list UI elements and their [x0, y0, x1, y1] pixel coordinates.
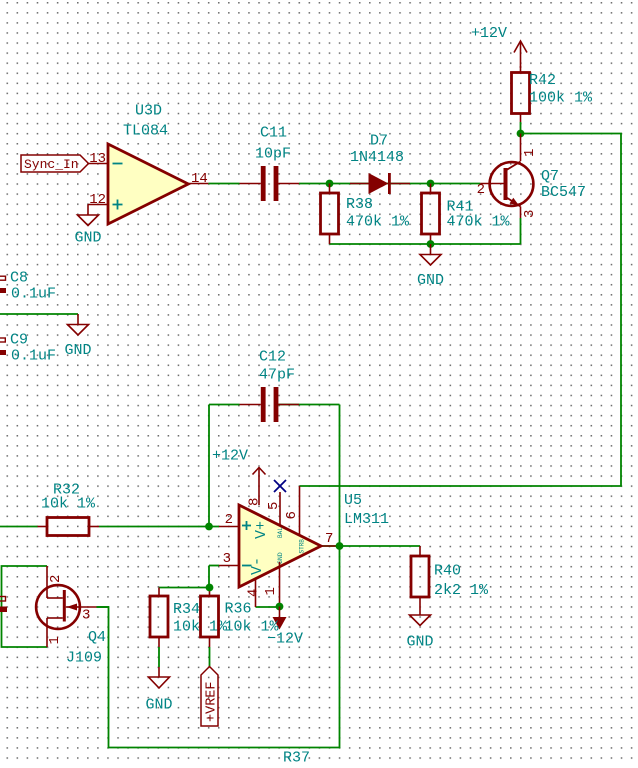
svg-text:3: 3 — [82, 608, 90, 624]
svg-text:14: 14 — [191, 171, 208, 187]
svg-text:1: 1 — [263, 587, 279, 595]
svg-text:4: 4 — [246, 589, 262, 597]
svg-text:10pF: 10pF — [255, 146, 291, 163]
svg-text:GND: GND — [65, 342, 92, 359]
svg-text:5: 5 — [266, 502, 282, 510]
svg-text:STRB: STRB — [299, 539, 306, 554]
svg-text:12: 12 — [89, 192, 106, 208]
svg-text:J109: J109 — [66, 650, 102, 667]
svg-text:U3D: U3D — [135, 103, 162, 120]
svg-text:13: 13 — [89, 151, 106, 167]
svg-text:R40: R40 — [434, 563, 461, 580]
svg-text:GND: GND — [277, 552, 284, 564]
svg-text:Sync_In: Sync_In — [24, 157, 79, 172]
svg-text:10k 1%: 10k 1% — [41, 496, 96, 513]
svg-text:C9: C9 — [10, 332, 28, 349]
svg-text:BAL: BAL — [277, 527, 284, 538]
svg-text:10k 1%: 10k 1% — [225, 619, 280, 636]
svg-text:R36: R36 — [225, 601, 252, 618]
svg-text:TL084: TL084 — [123, 123, 168, 140]
svg-text:V-: V- — [249, 557, 266, 575]
svg-text:1: 1 — [47, 636, 63, 644]
svg-text:470k 1%: 470k 1% — [447, 214, 511, 231]
svg-text:R34: R34 — [173, 601, 200, 618]
svg-text:BC547: BC547 — [541, 184, 586, 201]
svg-text:R42: R42 — [529, 72, 556, 89]
svg-text:V+: V+ — [253, 521, 270, 539]
svg-text:U5: U5 — [344, 492, 362, 509]
svg-text:7: 7 — [325, 531, 333, 547]
svg-text:GND: GND — [146, 697, 173, 714]
svg-text:GND: GND — [417, 272, 444, 289]
svg-text:3: 3 — [223, 551, 231, 567]
svg-text:+12V: +12V — [471, 25, 507, 42]
svg-text:0.1uF: 0.1uF — [11, 348, 56, 365]
svg-text:GND: GND — [407, 634, 434, 651]
svg-text:+12V: +12V — [212, 448, 248, 465]
svg-text:2: 2 — [477, 182, 485, 198]
svg-text:R38: R38 — [346, 196, 373, 213]
svg-text:Q4: Q4 — [88, 629, 106, 646]
svg-text:3: 3 — [522, 210, 538, 218]
svg-text:47pF: 47pF — [259, 367, 295, 384]
svg-text:8: 8 — [247, 498, 263, 506]
svg-text:100k 1%: 100k 1% — [529, 90, 593, 107]
svg-text:2k2 1%: 2k2 1% — [434, 582, 489, 599]
svg-text:0.1uF: 0.1uF — [11, 286, 56, 303]
svg-text:2: 2 — [48, 575, 64, 583]
svg-text:1N4148: 1N4148 — [350, 149, 404, 166]
svg-text:Q7: Q7 — [541, 168, 559, 185]
svg-text:C8: C8 — [10, 270, 28, 287]
svg-text:GND: GND — [75, 230, 102, 247]
svg-text:6: 6 — [284, 511, 300, 519]
svg-text:C11: C11 — [260, 125, 287, 142]
svg-text:C12: C12 — [259, 349, 286, 366]
svg-text:R37: R37 — [283, 750, 310, 764]
svg-text:1: 1 — [522, 149, 538, 157]
svg-text:LM311: LM311 — [344, 511, 389, 528]
svg-text:D7: D7 — [370, 133, 388, 150]
svg-text:470k 1%: 470k 1% — [346, 214, 410, 231]
svg-text:+VREF: +VREF — [205, 681, 220, 722]
svg-text:2: 2 — [225, 512, 233, 528]
